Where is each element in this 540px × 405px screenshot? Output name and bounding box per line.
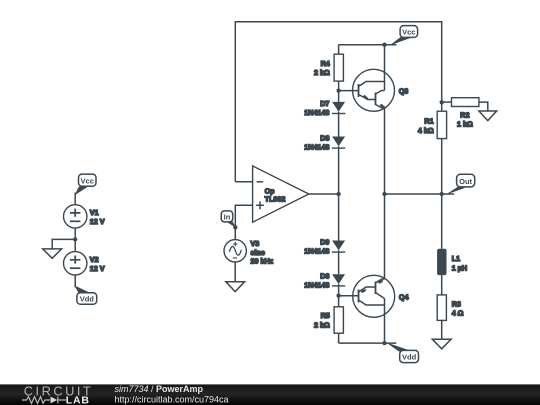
svg-text:1 kΩ: 1 kΩ [457,120,473,129]
wire Out node to L1 [441,194,443,249]
svg-text:4 Ω: 4 Ω [452,309,464,318]
diode D7 [332,91,345,114]
wire D7 to D8 [338,112,340,137]
svg-text:R3: R3 [452,299,461,308]
svg-text:12 V: 12 V [90,264,105,273]
wire R2 left [442,101,452,103]
node R1/R2 junction [440,100,444,104]
wire V1 to V2 [74,228,76,252]
CircuitLab logo zigzag and diode [22,397,66,404]
wire R3 to ground [441,320,443,339]
svg-text:D8: D8 [320,134,329,143]
svg-text:Vdd: Vdd [402,353,417,362]
net flag Vcc (top) [390,26,418,46]
svg-text:V2: V2 [90,255,99,264]
voltage source V2 [63,252,86,275]
wire D8 to output node [338,146,340,194]
ground (R3) [432,339,451,349]
svg-text:1N4148: 1N4148 [304,143,329,152]
wire feedback loop (output to inverting input) [235,22,441,182]
wire op-amp inverting input [235,181,253,183]
svg-text:V1: V1 [90,208,99,217]
svg-text:12 V: 12 V [90,217,105,226]
wire D6 to Q4 base node [338,284,340,307]
svg-text:In: In [224,212,231,221]
wire Vcc rail (top) [339,44,397,46]
svg-text:Q4: Q4 [399,293,409,302]
svg-text:1N4148: 1N4148 [304,108,329,117]
node emitter junction / Out [382,192,386,196]
voltage source V1 [63,205,86,228]
voltage source V3 (sine) [224,240,246,262]
node Q3 base [336,88,340,92]
wire R2 to ground [479,102,488,111]
wire Vdd rail (bottom) [339,342,397,344]
svg-text:1N4148: 1N4148 [304,280,329,289]
resistor R4 [334,45,343,91]
resistor R5 [334,307,343,343]
wire L1 to R3 [441,275,443,295]
svg-text:R2: R2 [460,111,469,120]
svg-text:LAB: LAB [66,394,90,405]
node Q4 collector / Vdd rail [382,341,386,345]
diode D9 [332,241,345,253]
net flag In [221,211,236,228]
svg-text:R5: R5 [321,311,330,320]
wire Vcc flag to V1 [74,193,76,206]
net flag Vdd (left) [74,285,96,304]
resistor R3 [437,295,446,321]
svg-text:sine: sine [251,248,265,257]
wire output node to D9 [338,194,340,241]
svg-text:Vcc: Vcc [81,176,94,185]
inductor L1 [437,249,446,275]
svg-text:D7: D7 [320,99,329,108]
svg-text:Out: Out [459,177,472,186]
wire R1 to Out node [441,139,443,194]
wire Q3 collector [384,45,386,91]
svg-text:R4: R4 [321,59,330,68]
diode D6 [332,274,345,286]
wire Q3 base [339,90,359,92]
footer bar [0,384,540,405]
wire ground tap [52,239,75,249]
svg-text:2 kΩ: 2 kΩ [314,68,330,77]
svg-text:V3: V3 [251,239,260,248]
node Q4 base [336,294,340,298]
svg-text:Vdd: Vdd [80,295,95,304]
net flag Vcc (left) [74,174,96,195]
svg-text:sim7734 / PowerAmp: sim7734 / PowerAmp [115,384,204,394]
svg-text:D6: D6 [320,272,329,281]
wire V3 to ground [234,262,236,282]
ground (V3) [226,282,245,292]
svg-text:http://circuitlab.com/cu794ca: http://circuitlab.com/cu794ca [115,394,229,404]
svg-text:D9: D9 [320,238,329,247]
svg-text:TL082: TL082 [265,195,286,204]
svg-text:2 kΩ: 2 kΩ [314,320,330,329]
diode D8 [332,137,345,149]
svg-text:1 µH: 1 µH [452,263,467,272]
node Out / right column [440,192,444,196]
svg-text:20 kHz: 20 kHz [251,257,274,266]
op-amp U1 TL082 [253,166,309,222]
wire Q4 base [339,295,359,297]
resistor R1 [437,102,446,138]
svg-text:L1: L1 [452,254,460,263]
node Vcc rail / Q3 collector [382,43,386,47]
wire Q3 emitter to Out node [384,108,386,194]
wire D9 to D6 [338,250,340,274]
wire op-amp output [309,193,339,195]
node op-amp output / bias chain [336,192,340,196]
resistor R2 [452,98,479,107]
node V1/V2/ground junction [73,237,77,241]
wire op-amp non-inverting input from V3 [235,205,253,240]
svg-text:1N4148: 1N4148 [304,247,329,256]
transistor Q4 (PNP darlington) [353,275,395,317]
net flag Out [446,174,475,195]
wire Out horizontal [385,193,455,195]
svg-text:R1: R1 [424,117,433,126]
node In flag attach [233,225,237,229]
net flag Vdd (bottom) [386,342,419,362]
transistor Q3 (NPN darlington) [353,69,395,111]
svg-text:4 kΩ: 4 kΩ [418,126,434,135]
wire Q4 collector to Vdd rail [384,299,386,344]
ground (R2) [479,111,497,121]
svg-text:Q3: Q3 [399,87,409,96]
svg-text:Vcc: Vcc [402,28,415,37]
wire V2 to Vdd flag [74,275,76,287]
ground (left) [43,249,62,258]
wire Out node to Q4 emitter [384,194,386,279]
